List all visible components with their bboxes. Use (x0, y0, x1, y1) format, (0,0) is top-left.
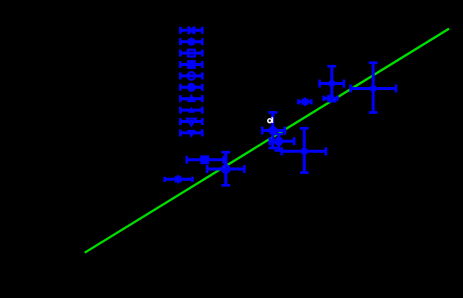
legend row 7 error bar (180, 95, 202, 102)
legend row 3 marker: open square (188, 50, 195, 57)
point P5 marker: filled circle (268, 126, 277, 135)
point P7 y error bar (300, 128, 309, 172)
legend row 7 marker: open triangle up (187, 94, 196, 102)
point P8 x error bar (187, 156, 224, 164)
legend row 5 marker: open circle (188, 72, 196, 80)
point P3 marker: asterisk (301, 98, 309, 106)
legend row 4 error bar (180, 61, 202, 68)
legend row 2 error bar (180, 38, 202, 45)
legend row 4 marker: filled square (187, 60, 196, 69)
point P2 x error bar (351, 85, 396, 93)
legend row 2 marker: asterisk star (187, 38, 195, 46)
point P1 y error bar (327, 66, 336, 101)
legend row 5 error bar (180, 72, 202, 79)
point P10 x error bar (165, 177, 193, 182)
point P8 marker: filled square (200, 155, 209, 164)
point P3 x error bar (298, 99, 311, 104)
point P6 marker: filled circle (274, 137, 283, 146)
point P10 marker: asterisk (174, 175, 182, 183)
legend row 9 marker: open triangle down (187, 119, 196, 126)
point P1 x error bar (320, 80, 344, 88)
green fit line (85, 29, 449, 253)
legend row 8 error bar (180, 107, 202, 114)
point P2 marker: filled circle (370, 85, 377, 92)
label d (268, 117, 273, 123)
point P7 marker: filled circle (301, 148, 308, 155)
point P4 x error bar (324, 96, 338, 101)
point P6 x error bar (270, 137, 294, 145)
point P1 marker: filled circle (328, 80, 335, 87)
point P6 y error bar (274, 134, 283, 151)
point P2 y error bar (369, 63, 378, 113)
point P9 marker: open circle (222, 165, 230, 173)
point P9 x error bar (207, 165, 244, 173)
point P5 y error bar (268, 112, 277, 148)
legend row 8 marker: filled triangle up (188, 107, 195, 113)
point P4 marker: asterisk (326, 94, 334, 102)
legend row 3 error bar (180, 50, 202, 57)
point P5 x error bar (262, 127, 285, 135)
legend row 1 marker: x-cross (188, 27, 195, 34)
point P9 y error bar (221, 152, 230, 185)
legend row 6 marker: filled circle (187, 83, 196, 92)
point P7 x error bar (282, 147, 326, 155)
legend row 6 error bar (180, 84, 202, 91)
legend row 9 error bar (180, 118, 202, 125)
legend row 10 marker: filled triangle down (187, 130, 196, 138)
legend row 1 error bar (180, 27, 202, 34)
legend row 10 error bar (180, 129, 202, 136)
